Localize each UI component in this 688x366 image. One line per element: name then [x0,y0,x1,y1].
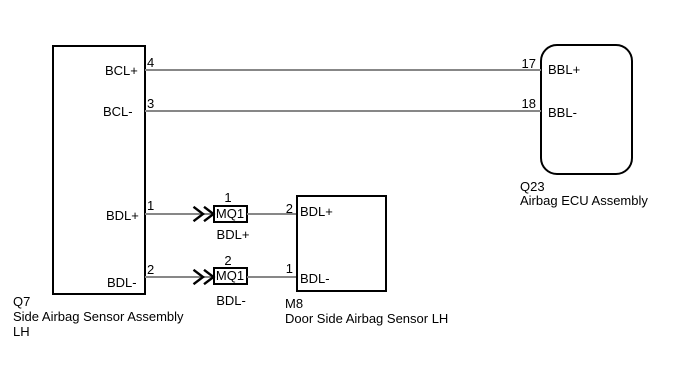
pin label BCL+ (Q7) [105,63,138,78]
pin number 1 (M8) [253,261,293,276]
pin label BDL+ (Q7) [106,208,139,223]
wire BDL+ (Q7 pin 1 to MQ1 pin 1) [145,213,214,215]
in-line connector arrows at MQ1 upper [191,205,216,223]
wire BDL- (Q7 pin 2 to MQ1 pin 2) [145,276,214,278]
reference label M8 Door Side Airbag Sensor LH [285,296,448,326]
pin number 2 (MQ1 lower) [219,253,237,268]
connector MQ1 (lower, BDL- line) [213,267,248,285]
wire BDL- (MQ1 to M8 pin 1) [247,276,296,278]
wire BCL+ to BBL+ (Q7 pin 4 to Q23 pin 17) [145,69,541,71]
net label BDL- (below MQ1 lower) [213,293,249,308]
pin number 17 (Q23) [496,56,536,71]
pin number 1 (Q7) [147,198,154,213]
pin label BDL- (Q7) [107,275,137,290]
pin number 3 (Q7) [147,96,154,111]
connector Q7 Side Airbag Sensor Assembly LH (box) [52,45,146,295]
reference label Q7 Side Airbag Sensor Assembly LH [13,294,184,339]
label MQ1 (lower) [213,268,247,283]
in-line connector arrows at MQ1 lower [191,268,216,286]
pin number 2 (Q7) [147,262,154,277]
pin label BBL+ (Q23) [548,62,580,77]
pin label BCL- (Q7) [103,104,133,119]
pin number 1 (MQ1 upper) [219,190,237,205]
net label BDL+ (below MQ1 upper) [215,227,251,242]
label MQ1 (upper) [213,206,247,221]
wire BDL+ (MQ1 to M8 pin 2) [247,213,296,215]
pin label BBL- (Q23) [548,105,577,120]
pin label BDL- (M8) [300,271,330,286]
pin label BDL+ (M8) [300,204,333,219]
reference label Q23 Airbag ECU Assembly [520,180,648,208]
wire BCL- to BBL- (Q7 pin 3 to Q23 pin 18) [145,110,541,112]
connector M8 Door Side Airbag Sensor LH (box) [296,195,387,292]
pin number 2 (M8) [253,201,293,216]
pin number 4 (Q7) [147,55,154,70]
pin number 18 (Q23) [496,96,536,111]
connector MQ1 (upper, BDL+ line) [213,205,248,223]
connector Q23 Airbag ECU Assembly (rounded box) [540,44,633,175]
